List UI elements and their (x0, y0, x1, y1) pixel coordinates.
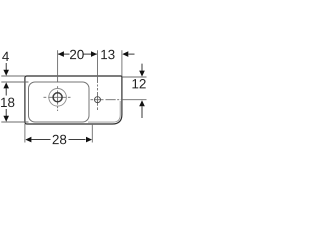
dimension 4: down arrow (5, 63, 7, 70)
extension line: outer top edge, to the left (1, 75, 25, 77)
dimension 28: line and arrows (25, 137, 31, 143)
label 28 (53, 135, 67, 144)
dimension 13: line stubs and outside arrow with tail (122, 51, 128, 57)
small hole circle (95, 97, 101, 103)
tap hole centerline horizontal (44, 96, 47, 98)
tap hole centerline vertical (57, 50, 59, 82)
label 20 (70, 50, 84, 59)
small hole centerline vertical (97, 50, 99, 83)
extension line: bowl bottom edge, to the left (1, 121, 28, 123)
label 12 (132, 79, 145, 88)
dimension 18: arrows and line (3, 82, 9, 88)
label 18 (1, 98, 14, 107)
small hole centerline horizontal (12 bottom ref) (91, 99, 94, 101)
inner rim line bottom-right (88, 101, 120, 122)
washbasin outer outline (25, 76, 122, 124)
extension line: 28 left (24, 124, 26, 143)
dimension 20: line and arrows (58, 53, 70, 55)
label 4 (2, 52, 9, 61)
tap hole outer circle (49, 89, 67, 107)
extension line: bowl top edge, to the left (1, 81, 28, 83)
extension line: right edge up to top dim row (121, 50, 123, 76)
extension line: 28 right (91, 124, 93, 143)
basin bowl outline (29, 82, 90, 122)
label 13 (101, 50, 114, 59)
extension line: top edge to the right (12 top ref) (123, 76, 147, 78)
dimension 12: arrows (141, 64, 143, 71)
tap hole inner circle (53, 93, 62, 102)
